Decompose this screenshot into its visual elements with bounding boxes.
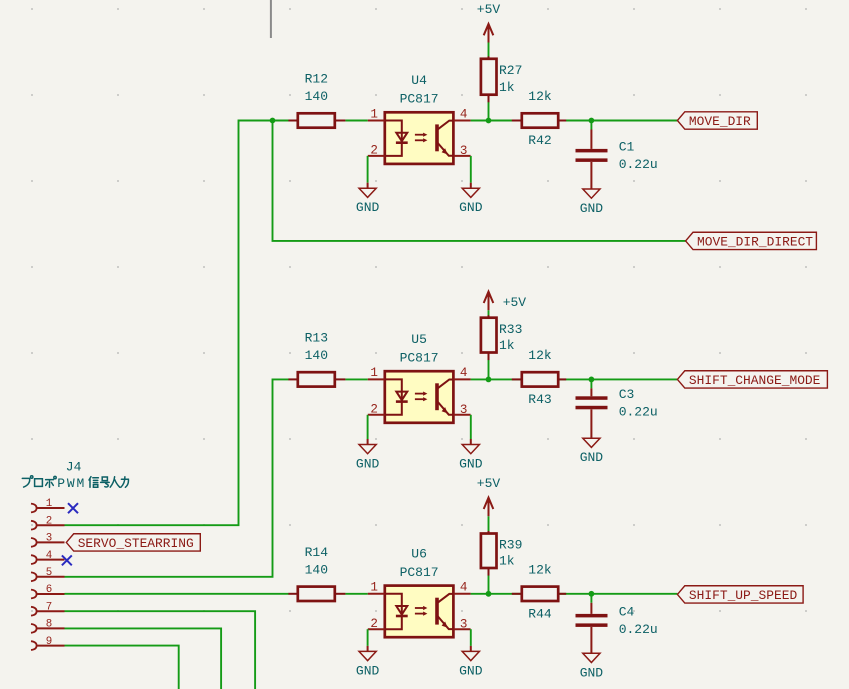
svg-text:GND: GND (580, 665, 604, 680)
svg-text:12k: 12k (528, 89, 552, 104)
wire J4.2 up to row1 (65, 121, 289, 526)
connector J4 pin 5 (31, 572, 37, 581)
connector J4 pin 1 (31, 504, 37, 513)
svg-text:9: 9 (46, 636, 52, 648)
svg-text:4: 4 (460, 366, 468, 380)
svg-text:+5V: +5V (503, 295, 527, 310)
ground under U4 pin 3 (470, 183, 472, 189)
wire R13 to U5 pin 1 (345, 378, 368, 380)
wire U4 pin 2 to ground (367, 156, 369, 183)
svg-text:0.22u: 0.22u (619, 405, 658, 420)
global label MOVE_DIR_DIRECT (686, 232, 817, 249)
resistor R42 (512, 120, 522, 122)
resistor R33 (488, 315, 490, 318)
svg-text:+5V: +5V (477, 2, 501, 17)
capacitor C4 0.22u (590, 603, 592, 614)
ground under C4 (583, 653, 600, 662)
svg-text:MOVE_DIR: MOVE_DIR (689, 114, 751, 129)
resistor R12 (288, 120, 297, 122)
svg-text:0.22u: 0.22u (619, 622, 658, 637)
op-to-coupler U5 PC817 (385, 371, 454, 423)
wire junction to C1 (590, 121, 592, 130)
U6 pin 3 (453, 628, 470, 630)
svg-text:5: 5 (46, 567, 52, 579)
wire J4.7 down (65, 611, 256, 689)
junction at R27/R42 (486, 118, 492, 124)
svg-text:12k: 12k (528, 348, 552, 363)
wire U5 pin 2 to ground (367, 415, 369, 439)
junction at C4 (589, 591, 595, 597)
svg-text:SERVO_STEARRING: SERVO_STEARRING (78, 536, 194, 551)
LED inside U6 (385, 594, 408, 629)
svg-text:U6: U6 (411, 546, 427, 561)
U6 pin 4 (453, 593, 470, 595)
svg-text:SHIFT_UP_SPEED: SHIFT_UP_SPEED (689, 588, 798, 603)
svg-text:8: 8 (46, 619, 52, 631)
no-connect X on J4 pin 1 (68, 503, 78, 513)
svg-text:PC817: PC817 (400, 565, 439, 580)
wire R33 to junction (488, 359, 490, 380)
resistor R44 (512, 593, 522, 595)
connector J4 pin 8 (31, 624, 37, 633)
svg-text:C4: C4 (619, 605, 635, 620)
svg-text:1k: 1k (499, 80, 515, 95)
power +5V symbol above R27 (484, 24, 494, 43)
connector J4 pin 4 (31, 555, 37, 564)
wire MOVE_DIR_DIRECT branch (273, 121, 686, 241)
wire junction to C4 (590, 594, 592, 603)
svg-text:3: 3 (460, 403, 468, 417)
op-to-coupler U6 PC817 (385, 586, 454, 638)
wire +5V to R39 (488, 516, 490, 531)
svg-text:GND: GND (580, 450, 604, 465)
global label SERVO_STEARRING (66, 534, 200, 551)
svg-text:1k: 1k (499, 554, 515, 569)
svg-text:GND: GND (356, 457, 380, 472)
svg-text:140: 140 (305, 348, 328, 363)
wire U6 pin 3 to ground (470, 629, 472, 646)
U6 pin 1 (368, 593, 385, 595)
junction at C3 (589, 377, 595, 383)
U4 pin 1 (368, 120, 385, 122)
wire U5 pin 3 to ground (470, 415, 472, 439)
svg-text:1: 1 (370, 107, 378, 121)
svg-text:PC817: PC817 (400, 92, 439, 107)
svg-text:140: 140 (305, 89, 328, 104)
svg-text:GND: GND (356, 200, 380, 215)
power +5V symbol above R39 (484, 498, 494, 517)
LED inside U4 (385, 121, 408, 156)
no-connect X on J4 pin 4 (62, 555, 72, 565)
svg-text:R44: R44 (528, 606, 552, 621)
wire J4.9 down (65, 646, 179, 689)
light arrows inside U5 (415, 392, 428, 402)
svg-text:R14: R14 (305, 545, 329, 560)
U6 pin 2 (368, 628, 385, 630)
wire J4.6 to row3 (65, 593, 289, 595)
junction at R39/R44 (486, 591, 492, 597)
ground under C3 (583, 438, 600, 447)
resistor R13 (288, 378, 297, 380)
wire J4.8 down (65, 628, 222, 689)
phototransistor inside U5 (435, 383, 439, 410)
svg-text:2: 2 (370, 617, 378, 631)
svg-text:MOVE_DIR_DIRECT: MOVE_DIR_DIRECT (697, 235, 813, 250)
junction MOVE_DIR_DIRECT branch (270, 118, 276, 124)
U4 pin 2 (368, 155, 385, 157)
svg-text:3: 3 (460, 144, 468, 158)
wire J4.5 up to row2 (65, 379, 289, 576)
wire U5 pin 4 to label SHIFT_CHANGE_MODE (471, 378, 678, 380)
svg-text:R13: R13 (305, 330, 328, 345)
global label SHIFT_CHANGE_MODE (677, 371, 827, 388)
power +5V symbol above R33 (484, 292, 494, 311)
ground under U6 pin 2 (367, 646, 369, 652)
svg-text:2: 2 (46, 515, 52, 527)
svg-text:140: 140 (305, 562, 328, 577)
svg-text:GND: GND (356, 663, 380, 678)
capacitor C1 0.22u (590, 130, 592, 149)
svg-text:R39: R39 (499, 538, 522, 553)
svg-text:R27: R27 (499, 63, 522, 78)
resistor R43 (512, 378, 522, 380)
connector J4 pin 6 (31, 590, 37, 599)
svg-text:GND: GND (459, 200, 483, 215)
svg-text:U4: U4 (411, 73, 427, 88)
wire R39 to junction (488, 574, 490, 594)
svg-text:R43: R43 (528, 392, 551, 407)
wire U6 pin 4 to label SHIFT_UP_SPEED (471, 593, 678, 595)
wire R12 to U4 pin 1 (345, 120, 368, 122)
ground under U5 pin 3 (470, 439, 472, 445)
svg-text:12k: 12k (528, 562, 552, 577)
wire U6 pin 2 to ground (367, 629, 369, 646)
LED inside U5 (385, 379, 408, 414)
ground under U5 pin 2 (367, 439, 369, 445)
svg-text:+5V: +5V (477, 476, 501, 491)
wire R14 to U6 pin 1 (345, 593, 368, 595)
svg-text:GND: GND (459, 663, 483, 678)
global label MOVE_DIR (677, 112, 757, 129)
svg-text:C1: C1 (619, 140, 635, 155)
svg-text:R12: R12 (305, 72, 328, 87)
graphic line (sheet divider) (270, 0, 272, 38)
svg-text:7: 7 (46, 601, 52, 613)
connector J4 value プロポPWM信号入力 (drawn strokes) (22, 476, 128, 488)
svg-text:SHIFT_CHANGE_MODE: SHIFT_CHANGE_MODE (689, 373, 821, 388)
connector J4 pin 7 (31, 607, 37, 616)
U5 pin 2 (368, 414, 385, 416)
svg-text:4: 4 (460, 581, 468, 595)
wire junction to C3 (590, 379, 592, 388)
svg-text:PWM: PWM (57, 476, 86, 491)
U4 pin 3 (453, 155, 470, 157)
svg-text:J4: J4 (66, 460, 82, 475)
svg-text:2: 2 (370, 144, 378, 158)
ground under U6 pin 3 (470, 646, 472, 652)
U4 pin 4 (453, 120, 470, 122)
svg-text:4: 4 (46, 550, 52, 562)
svg-text:C3: C3 (619, 387, 635, 402)
ground under C1 (583, 189, 600, 198)
wire +5V to R27 (488, 43, 490, 57)
svg-text:R33: R33 (499, 322, 522, 337)
resistor R27 (488, 56, 490, 59)
phototransistor inside U6 (435, 598, 439, 625)
light arrows inside U4 (415, 133, 428, 143)
svg-text:2: 2 (370, 403, 378, 417)
op-to-coupler U4 PC817 (385, 112, 454, 164)
wire U4 pin 3 to ground (470, 156, 472, 183)
ground under U4 pin 2 (367, 183, 369, 189)
svg-text:6: 6 (46, 584, 52, 596)
svg-text:1: 1 (46, 498, 52, 510)
svg-text:GND: GND (580, 201, 604, 216)
svg-text:GND: GND (459, 457, 483, 472)
svg-text:1: 1 (370, 581, 378, 595)
svg-text:U5: U5 (411, 332, 427, 347)
capacitor C3 0.22u (590, 388, 592, 396)
svg-text:3: 3 (46, 533, 52, 545)
wire +5V to R33 (488, 310, 490, 316)
junction at R33/R43 (486, 377, 492, 383)
connector J4 pin 3 (31, 538, 37, 547)
U5 pin 1 (368, 378, 385, 380)
light arrows inside U6 (415, 606, 428, 616)
wire R27 to junction (488, 101, 490, 121)
connector J4 pin 9 (31, 641, 37, 650)
svg-text:1k: 1k (499, 338, 515, 353)
svg-text:PC817: PC817 (400, 350, 439, 365)
connector J4 pin 2 (31, 521, 37, 530)
svg-text:R42: R42 (528, 133, 551, 148)
svg-text:1: 1 (370, 366, 378, 380)
svg-text:4: 4 (460, 107, 468, 121)
junction at C1 (589, 118, 595, 124)
resistor R14 (288, 593, 297, 595)
svg-text:3: 3 (460, 617, 468, 631)
U5 pin 3 (453, 414, 470, 416)
phototransistor inside U4 (435, 124, 439, 151)
resistor R39 (488, 531, 490, 534)
global label SHIFT_UP_SPEED (677, 586, 803, 603)
wire U4 pin 4 to label MOVE_DIR (471, 120, 678, 122)
svg-text:0.22u: 0.22u (619, 157, 658, 172)
U5 pin 4 (453, 378, 470, 380)
